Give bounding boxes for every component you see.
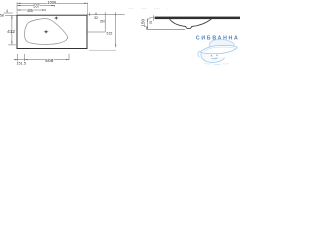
svg-text:32: 32	[149, 20, 152, 24]
svg-text:250: 250	[100, 20, 105, 24]
svg-text:58: 58	[0, 13, 4, 18]
svg-text:515: 515	[107, 31, 113, 36]
svg-text:150: 150	[140, 19, 146, 27]
svg-text:151.5: 151.5	[16, 60, 26, 65]
svg-text:1006: 1006	[48, 0, 57, 5]
svg-text:405: 405	[27, 8, 34, 13]
svg-text:32: 32	[94, 15, 99, 20]
svg-text:537: 537	[33, 3, 40, 8]
svg-text:412: 412	[7, 29, 15, 34]
svg-text:508: 508	[45, 58, 54, 63]
